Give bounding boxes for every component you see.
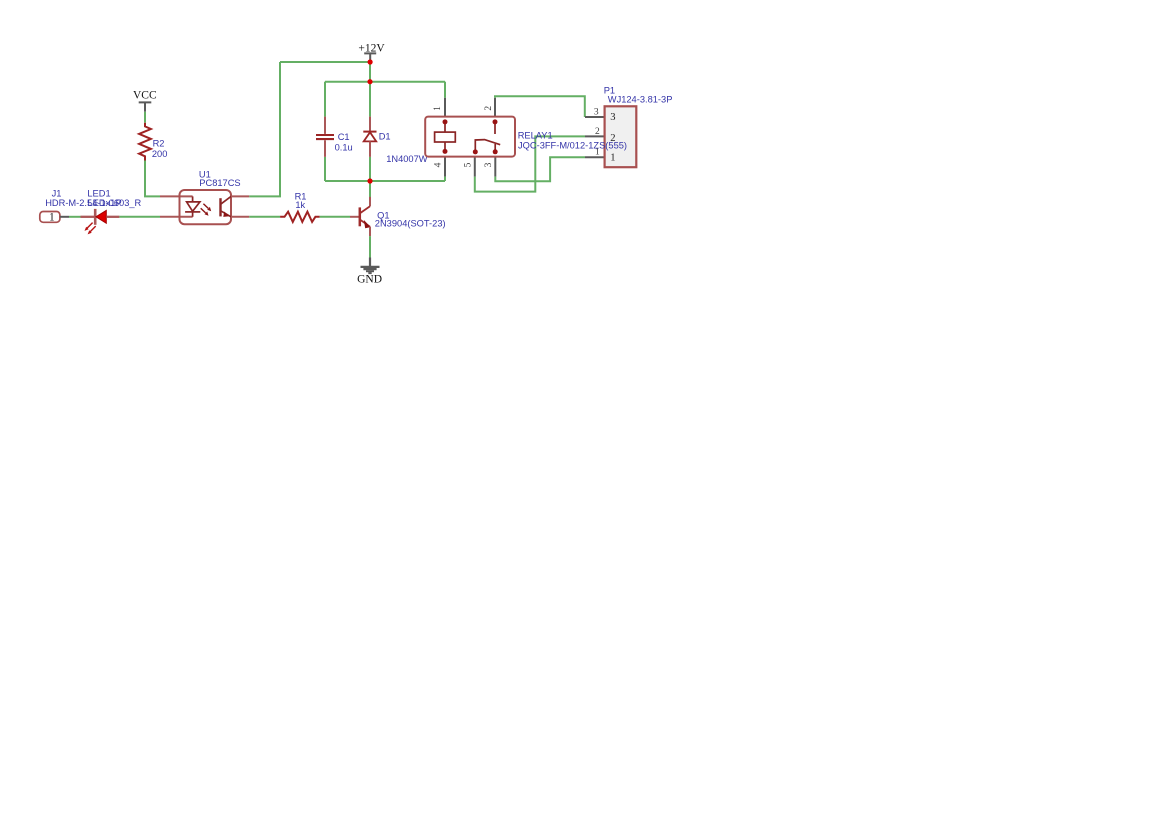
svg-text:2: 2 bbox=[484, 106, 494, 111]
wire C1 branch top bbox=[324, 82, 326, 117]
svg-text:1k: 1k bbox=[295, 200, 305, 210]
svg-text:D1: D1 bbox=[379, 131, 391, 141]
capacitor C1 bbox=[316, 117, 334, 157]
relay RELAY1 bbox=[425, 98, 515, 177]
ground bbox=[361, 258, 380, 274]
pin 3 bbox=[494, 157, 496, 177]
svg-text:3: 3 bbox=[484, 162, 494, 167]
wire LED1 to U1 pin2 bbox=[119, 216, 160, 218]
transistor Q1 2N3904 bbox=[350, 197, 371, 236]
wire bottom rail bbox=[325, 180, 445, 182]
svg-text:3: 3 bbox=[594, 107, 599, 117]
wire C1 branch bottom bbox=[324, 157, 326, 181]
svg-text:RELAY1: RELAY1 bbox=[518, 130, 553, 140]
pin 4 bbox=[444, 157, 446, 177]
wire top rail down to relay pin1 bbox=[444, 82, 446, 98]
svg-text:J1: J1 bbox=[52, 189, 62, 199]
node junction bottom rail bbox=[367, 178, 372, 183]
svg-text:WJ124-3.81-3P: WJ124-3.81-3P bbox=[608, 94, 673, 104]
svg-text:GND: GND bbox=[357, 274, 382, 286]
wire relay pin3 to P1 pin1 bbox=[495, 157, 585, 181]
svg-text:1: 1 bbox=[610, 153, 615, 164]
resistor R2 bbox=[139, 123, 151, 161]
resistor R1 bbox=[280, 212, 320, 222]
wire bottom rail to Q1 collector bbox=[369, 181, 371, 197]
wire relay pin2 to P1 pin3 bbox=[495, 96, 585, 117]
svg-text:LED-0603_R: LED-0603_R bbox=[88, 198, 142, 208]
wire relay pin5 to P1 pin2 bbox=[475, 136, 585, 191]
svg-text:3: 3 bbox=[610, 112, 615, 123]
svg-text:200: 200 bbox=[152, 149, 168, 159]
wire U1 emitter to R1 bbox=[249, 216, 280, 218]
wire +12V horizontal to vertical riser bbox=[280, 61, 370, 63]
node junction at +12V bbox=[368, 59, 373, 64]
wire U1 collector up to +12V bbox=[249, 62, 280, 196]
svg-text:PC817CS: PC817CS bbox=[199, 178, 240, 188]
svg-text:5: 5 bbox=[464, 162, 474, 167]
wire +12V down to top rail bbox=[369, 62, 371, 82]
diode D1 1N4007W bbox=[363, 117, 376, 157]
wire Q1 emitter to GND bbox=[369, 236, 371, 257]
op-amp U1 PC817CS optocoupler bbox=[160, 190, 249, 224]
wire top rail C1/D1/relay bbox=[325, 81, 445, 83]
connector J1 bbox=[40, 212, 69, 224]
svg-text:2N3904(SOT-23): 2N3904(SOT-23) bbox=[375, 218, 446, 228]
svg-text:R2: R2 bbox=[153, 139, 165, 149]
svg-text:2: 2 bbox=[595, 127, 600, 137]
svg-text:LED1: LED1 bbox=[87, 188, 110, 198]
wire R2 down and into U1 pin1 bbox=[145, 161, 160, 197]
pin 2 bbox=[494, 98, 496, 117]
wire D1 branch top bbox=[369, 82, 371, 117]
svg-text:0.1u: 0.1u bbox=[335, 142, 353, 152]
svg-text:JQC-3FF-M/012-1ZS(555): JQC-3FF-M/012-1ZS(555) bbox=[518, 141, 627, 151]
relay contact bbox=[475, 123, 500, 151]
power symbol +12V bbox=[358, 42, 385, 62]
svg-text:VCC: VCC bbox=[133, 90, 157, 102]
power symbol VCC bbox=[133, 90, 157, 112]
LED LED1 bbox=[81, 209, 120, 235]
wire D1 branch bottom bbox=[369, 157, 371, 181]
wire relay pin4 to bottom rail bbox=[444, 177, 446, 181]
svg-text:1: 1 bbox=[49, 212, 55, 224]
svg-text:C1: C1 bbox=[338, 132, 350, 142]
svg-text:1: 1 bbox=[433, 106, 443, 111]
wire R1 to Q1 base bbox=[320, 216, 350, 218]
wire VCC to R2 bbox=[144, 112, 146, 123]
relay coil bbox=[435, 122, 456, 151]
svg-text:1N4007W: 1N4007W bbox=[386, 154, 428, 164]
node junction top rail bbox=[367, 79, 372, 84]
pin 5 bbox=[474, 157, 476, 177]
pin 1 bbox=[444, 98, 446, 117]
wire J1 to LED1 bbox=[69, 216, 81, 218]
svg-text:4: 4 bbox=[433, 162, 443, 167]
connector P1 bbox=[585, 106, 636, 167]
